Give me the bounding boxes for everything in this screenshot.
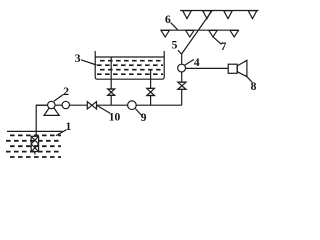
leader label 5 <box>178 50 182 54</box>
sprinkler row1 head d <box>248 11 257 19</box>
leader label 6 <box>171 23 178 30</box>
sprinkler row1 head c <box>224 11 233 19</box>
riser pipe above alarm valve <box>181 54 183 64</box>
riser pipe to main <box>181 89 183 105</box>
sprinkler row2 head c <box>209 30 217 37</box>
leader label 8 <box>246 75 253 82</box>
gate valve 10 <box>87 102 92 109</box>
sprinkler row1 head b <box>203 11 212 19</box>
sprinkler row2 head d <box>230 30 238 37</box>
leader label 9 <box>135 109 141 115</box>
branch pipe 6 <box>161 29 239 31</box>
main pipe: circle9 to riser elbow <box>136 104 182 106</box>
tank water surface <box>95 56 164 58</box>
leader label 2 <box>54 94 64 101</box>
tank outlet pipe 2 <box>150 69 152 88</box>
gate valve on riser <box>178 81 187 83</box>
reservoir water dashes <box>6 135 61 157</box>
gate valve on tank pipe 1 <box>108 88 115 90</box>
tank 3 shell <box>95 51 164 79</box>
main pipe: pump to valve10 <box>36 104 48 106</box>
svg-text:10: 10 <box>109 112 121 124</box>
gong feed pipe <box>186 67 229 69</box>
reservoir water surface <box>7 130 62 132</box>
indicator circle 9 <box>128 101 137 110</box>
foot valve 1 cross lower <box>31 144 38 152</box>
riser pipe below alarm valve <box>181 72 183 82</box>
svg-text:3: 3 <box>75 53 81 65</box>
distribution main diagonal 5 <box>182 10 213 54</box>
pump 2 casing triangle <box>44 105 59 116</box>
leader label 7 <box>213 37 221 44</box>
svg-text:1: 1 <box>66 121 72 133</box>
svg-text:6: 6 <box>165 14 171 26</box>
leader label 4 <box>185 60 194 66</box>
leader label 3 <box>81 60 97 65</box>
leader label 1 <box>56 130 66 136</box>
svg-text:8: 8 <box>251 81 257 93</box>
tank outlet pipe 1 <box>110 57 112 89</box>
leader label 10 <box>97 106 110 114</box>
svg-text:2: 2 <box>63 86 69 98</box>
pump 2 circle <box>48 101 55 108</box>
svg-text:5: 5 <box>172 40 178 52</box>
svg-text:7: 7 <box>221 41 227 53</box>
main pipe: valve10 to circle9 <box>97 104 128 106</box>
water motor alarm gong 8 body <box>228 64 237 73</box>
svg-text:4: 4 <box>194 57 200 69</box>
svg-text:9: 9 <box>141 112 147 124</box>
branch pipe upper (unlabeled) <box>180 10 259 12</box>
foot valve stub <box>34 152 36 155</box>
sprinkler row2 head b <box>186 30 194 37</box>
sprinkler row2 head a <box>161 30 169 37</box>
foot valve 1 body <box>31 136 38 151</box>
foot valve 1 cross upper <box>31 136 38 144</box>
pump outlet circle <box>62 101 69 108</box>
gong horn <box>237 60 247 76</box>
tank water dashes <box>97 61 163 74</box>
sprinkler row1 head a <box>183 11 192 19</box>
suction elbow pipe <box>36 105 48 136</box>
gate valve on tank pipe 2 <box>147 87 155 89</box>
alarm check valve 4 <box>178 64 186 72</box>
